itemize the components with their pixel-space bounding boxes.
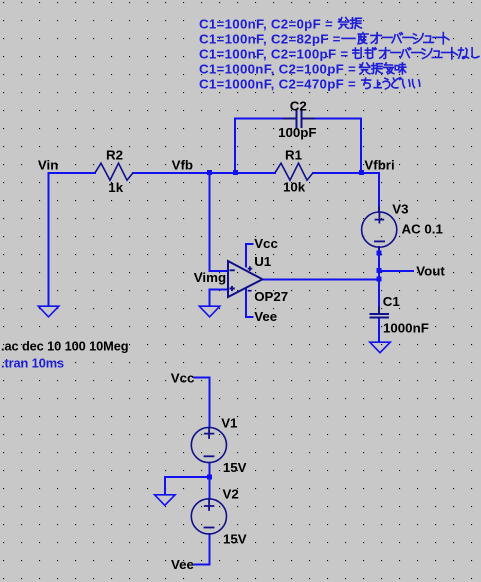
svg-text:V3: V3 [392,202,408,217]
svg-text:1000nF: 1000nF [383,321,429,336]
svg-text:Vee: Vee [254,309,277,324]
svg-text:15V: 15V [223,460,247,475]
svg-text:10k: 10k [283,180,306,195]
svg-text:Vfbri: Vfbri [364,157,394,172]
svg-text:Vimg: Vimg [194,270,226,285]
svg-text:V2: V2 [223,486,239,501]
svg-text:Vee: Vee [171,557,194,572]
svg-text:OP27: OP27 [254,289,288,304]
svg-text:AC 0.1: AC 0.1 [402,221,444,236]
svg-text:Vfb: Vfb [172,158,193,173]
svg-text:C1: C1 [383,294,401,309]
svg-text:Vout: Vout [416,263,445,278]
svg-text:C1=1000nF, C2=100pF =: C1=1000nF, C2=100pF = [199,62,356,77]
svg-text:C1=1000nF, C2=470pF =: C1=1000nF, C2=470pF = [199,77,356,92]
svg-text:Vin: Vin [38,158,58,173]
svg-text:.ac dec 10 100 10Meg: .ac dec 10 100 10Meg [1,338,128,353]
svg-text:Vcc: Vcc [254,236,278,251]
svg-text:15V: 15V [223,532,247,547]
svg-text:C1=100nF, C2=82pF =: C1=100nF, C2=82pF = [199,31,341,46]
svg-text:1k: 1k [108,180,123,195]
svg-text:C1=100nF, C2=100pF =: C1=100nF, C2=100pF = [199,47,348,62]
svg-text:R1: R1 [285,147,303,162]
svg-text:U1: U1 [254,254,272,269]
svg-text:C1=100nF, C2=0pF =: C1=100nF, C2=0pF = [199,16,333,31]
svg-text:100pF: 100pF [278,125,316,140]
svg-text:R2: R2 [106,147,123,162]
svg-text:Vcc: Vcc [171,371,195,386]
svg-text:C2: C2 [290,98,307,113]
svg-text:V1: V1 [221,416,238,431]
svg-text:.tran 10ms: .tran 10ms [1,355,64,370]
